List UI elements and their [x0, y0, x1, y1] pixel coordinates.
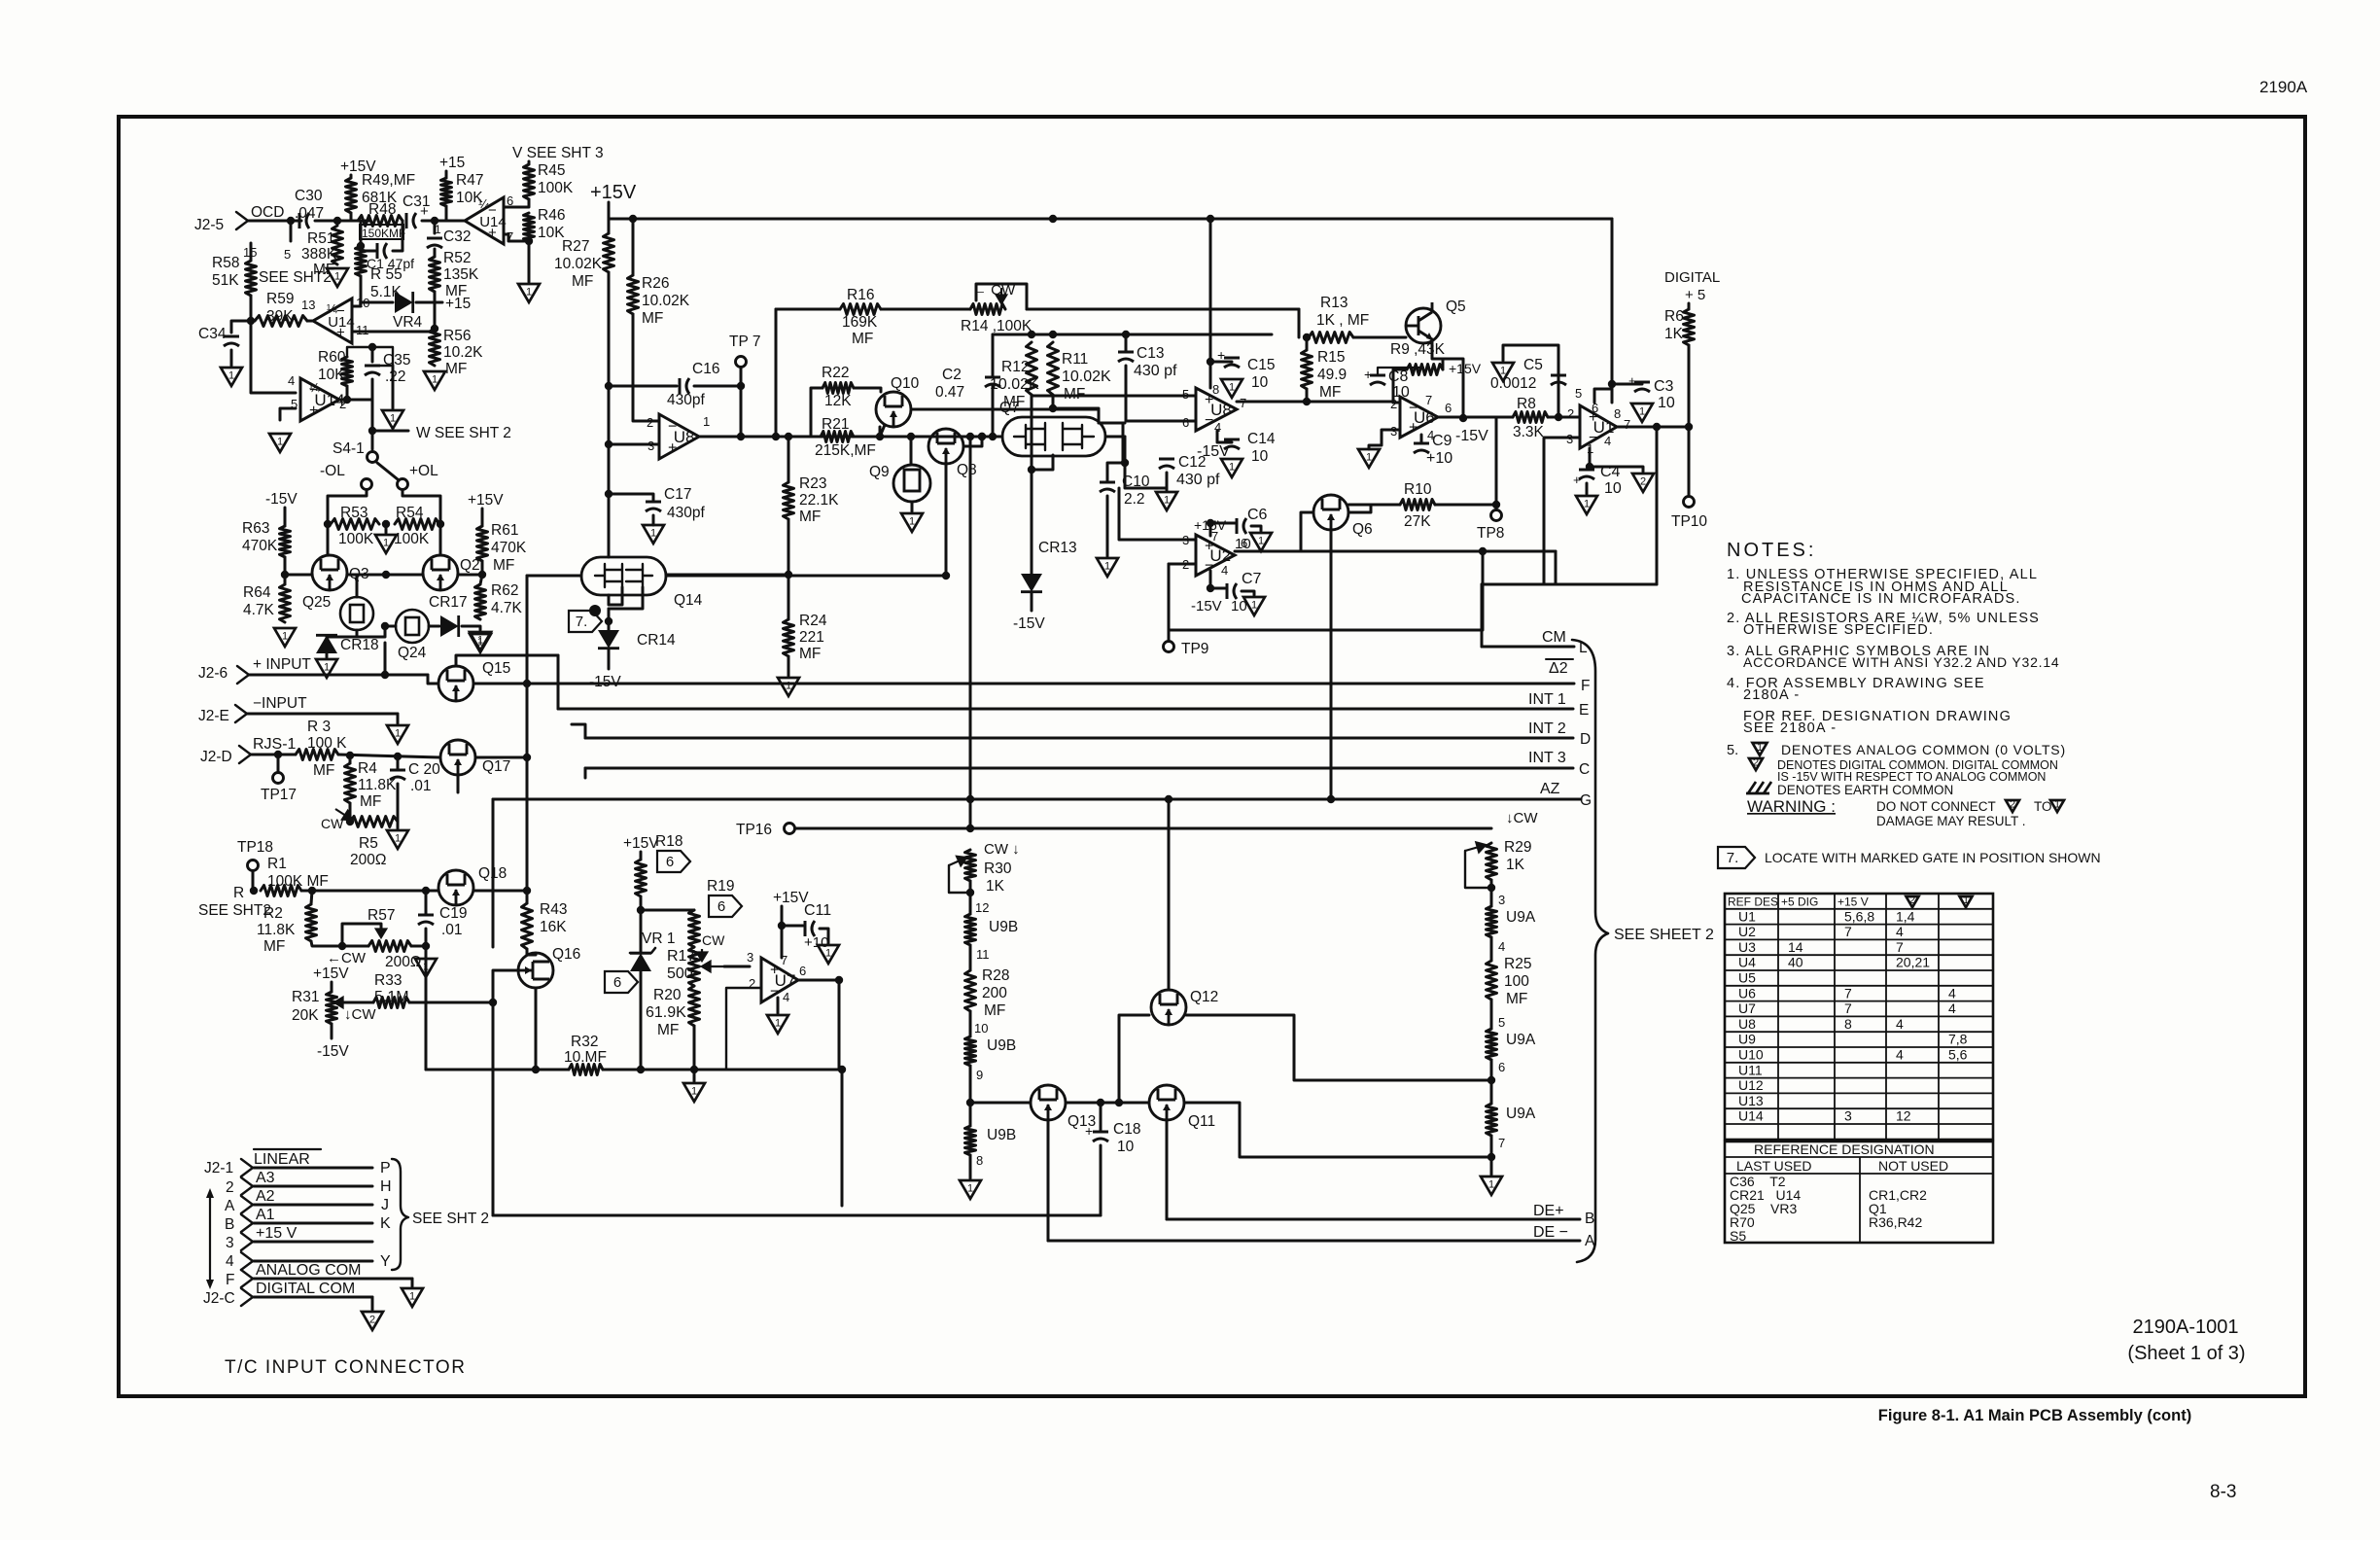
wire Q7 bottoms [1032, 455, 1053, 470]
resistor R10 [1400, 500, 1435, 510]
wire C11 branch [782, 925, 803, 928]
junction Q24 left [381, 622, 389, 630]
wire U7 out down [838, 980, 841, 1070]
wire U8a output bus [699, 436, 1002, 439]
wire INT2 left leg [572, 724, 585, 738]
svg-text:R10: R10 [1404, 481, 1432, 498]
svg-text:.01: .01 [441, 922, 463, 938]
junction R53 left [324, 520, 332, 528]
wire R55 to U14b out [352, 276, 361, 306]
J2 group brace [392, 1159, 408, 1270]
svg-text:Q14: Q14 [674, 592, 703, 609]
wire mid node ground [385, 524, 388, 533]
junction y1100 at R20 [690, 1066, 698, 1073]
svg-text:+15: +15 [439, 155, 465, 171]
svg-text:+15V: +15V [623, 835, 659, 852]
wire R45 to U14a loop [504, 199, 529, 207]
wire U9B a to R28 [969, 945, 972, 970]
wire R24 column [787, 575, 790, 619]
svg-text:INT 1: INT 1 [1528, 691, 1566, 708]
wire CM box left [1481, 584, 1484, 647]
test point TP16 [785, 824, 795, 834]
resistor R4 [345, 763, 356, 803]
svg-text:A2: A2 [256, 1188, 275, 1205]
wire R23 to Q14 gate node [787, 519, 790, 575]
svg-text:U8: U8 [1210, 401, 1232, 419]
svg-text:4: 4 [288, 373, 295, 388]
resistor R48 box 150KMF [360, 225, 403, 239]
wire R9 right leg [1442, 359, 1445, 369]
svg-text:R62: R62 [491, 582, 518, 599]
wire stub pin 5 below [290, 221, 293, 241]
resistor U9B b [965, 1036, 976, 1066]
svg-text:6: 6 [666, 854, 674, 870]
svg-text:7: 7 [1498, 1136, 1505, 1150]
svg-text:6: 6 [1241, 536, 1247, 550]
ground below R46 [518, 284, 540, 302]
svg-text:C18: C18 [1113, 1121, 1140, 1138]
svg-text:8: 8 [976, 1153, 983, 1168]
transistor Q12 [1151, 990, 1186, 1025]
ground below R5 [387, 830, 408, 849]
svg-text:Q8: Q8 [957, 462, 977, 478]
junction node W [368, 427, 376, 435]
long wire y1100 left [426, 1069, 569, 1071]
R29 wiper box [1465, 851, 1491, 888]
svg-text:10K: 10K [318, 367, 345, 383]
test point TP9 [1164, 642, 1174, 652]
wire Q7 right down [1124, 437, 1127, 463]
svg-text:U8: U8 [674, 428, 695, 446]
svg-text:TP17: TP17 [261, 787, 297, 803]
svg-text:A: A [1585, 1233, 1595, 1249]
wire +OL loop [402, 490, 440, 524]
junction x866 [838, 1066, 846, 1073]
ground below U14c [269, 434, 291, 452]
wire Q6 gate down [1330, 530, 1333, 799]
svg-text:ACCORDANCE WITH ANSI Y32.2: ACCORDANCE WITH ANSI Y32.2 AND Y32.14 [1743, 654, 2060, 670]
svg-text:1: 1 [1488, 1179, 1494, 1191]
wire +15 to R47 [445, 171, 448, 178]
ground below C10 [1097, 558, 1118, 577]
wire R33 wiper join [334, 1001, 373, 1004]
svg-text:2.2: 2.2 [1124, 491, 1145, 508]
svg-text:R12: R12 [1001, 359, 1029, 375]
resistor R64 [280, 584, 291, 622]
resistor R24 [784, 619, 794, 656]
svg-text:+15: +15 [445, 296, 471, 312]
potentiometer R17 [689, 947, 700, 986]
capacitor C2 [985, 377, 1000, 387]
wire R5 to C20 bottom [397, 784, 400, 822]
svg-text:1: 1 [1229, 462, 1235, 474]
ground at C7 [1243, 597, 1265, 615]
svg-text:100K: 100K [538, 180, 574, 196]
junction U9A bottom [1487, 1153, 1495, 1161]
svg-text:5: 5 [284, 247, 291, 262]
wire AZ leg to TP16 line [969, 799, 972, 828]
wire R10 right [1435, 504, 1496, 507]
wire C17 cap to gnd [652, 515, 655, 525]
svg-text:430 pf: 430 pf [1134, 363, 1177, 379]
svg-text:U7: U7 [1738, 1001, 1756, 1016]
svg-text:P: P [380, 1160, 391, 1176]
svg-text:R23: R23 [799, 475, 826, 492]
svg-text:←CW: ←CW [327, 950, 367, 966]
junction Q8 right [978, 433, 986, 440]
wire C10 node right [1125, 463, 1167, 488]
op-amp U8 A [659, 414, 699, 459]
wire TP9 column [1168, 564, 1171, 640]
svg-text:1K: 1K [986, 878, 1005, 895]
ground below C12 [1156, 492, 1177, 510]
svg-text:R16: R16 [847, 287, 874, 303]
potentiometer R29 [1487, 843, 1497, 880]
junction R30 box [966, 889, 974, 896]
svg-text:2: 2 [1753, 756, 1759, 768]
svg-text:AZ: AZ [1540, 781, 1560, 797]
svg-text:10.2K: 10.2K [443, 344, 483, 361]
wire U7 pin2 loop [726, 988, 761, 1070]
svg-text:Q7: Q7 [999, 400, 1020, 416]
resistor U9B a [965, 914, 976, 945]
wire W to switch [371, 431, 374, 449]
junction Q14 gate [785, 571, 792, 579]
svg-text:R51: R51 [307, 230, 334, 247]
wire C13 bottom [1126, 366, 1142, 421]
svg-text:430pf: 430pf [667, 505, 705, 521]
svg-text:430pf: 430pf [667, 392, 705, 408]
net TP16 line [795, 827, 1491, 830]
junction out at R23 [785, 433, 792, 440]
wire R33 to vertical [409, 1001, 493, 1004]
svg-text:0.47: 0.47 [935, 384, 964, 401]
wire R18 node down [640, 910, 643, 952]
svg-text:B: B [225, 1216, 234, 1233]
svg-text:-15V: -15V [265, 491, 297, 508]
svg-text:R25: R25 [1504, 956, 1531, 972]
svg-text:1: 1 [432, 374, 437, 386]
junction Q7 left [978, 433, 986, 440]
svg-text:8: 8 [1614, 406, 1621, 421]
svg-text:A: A [225, 1198, 235, 1214]
wire U9Bb to node [969, 1066, 972, 1103]
wire C8 loop [1378, 368, 1423, 375]
junction R57 left [338, 942, 346, 950]
wire C12 to ground [1166, 473, 1169, 490]
wire -INPUT [247, 713, 398, 716]
junction C3 node [1653, 423, 1661, 431]
junction R2 top [308, 887, 316, 895]
connector J2-E chevron [235, 705, 247, 722]
svg-text:R61: R61 [491, 522, 518, 539]
svg-text:27K: 27K [1404, 513, 1431, 530]
svg-text:1: 1 [409, 1291, 415, 1303]
svg-text:R5: R5 [359, 835, 378, 852]
junction bus at R26 [629, 215, 637, 223]
wire VR4 to +15 [416, 301, 442, 304]
junction C13 top [1122, 331, 1130, 338]
svg-text:1: 1 [390, 413, 396, 425]
svg-text:J: J [381, 1197, 389, 1213]
wire below R57 ground [425, 946, 428, 957]
wire U6 out to R8 [1496, 416, 1513, 419]
svg-text:R33: R33 [374, 972, 402, 989]
svg-text:MF: MF [657, 1022, 679, 1038]
svg-text:R 55: R 55 [370, 266, 402, 283]
R17 wiper arrow [702, 962, 724, 971]
wire C3 node drop [1611, 384, 1614, 403]
svg-text:U10: U10 [1738, 1047, 1764, 1063]
svg-text:J2-1: J2-1 [204, 1160, 233, 1176]
svg-text:7.: 7. [576, 614, 588, 630]
wire U2 pin2 loop [1169, 551, 1483, 630]
wire Q10 drain stub [880, 425, 885, 437]
svg-text:1: 1 [909, 516, 915, 528]
svg-text:RJS-1: RJS-1 [253, 736, 297, 753]
svg-text:1: 1 [1164, 495, 1170, 507]
svg-text:R26: R26 [642, 275, 669, 292]
svg-text:+: + [1085, 1123, 1093, 1139]
wire Q15 top corner [456, 655, 558, 666]
svg-text:-15V: -15V [317, 1043, 349, 1060]
connector range arrow [209, 1194, 211, 1283]
wire R22 left leg [811, 388, 822, 437]
wire +INPUT [249, 674, 428, 677]
transistor Q13 [1031, 1085, 1066, 1120]
junction Q14/Q8 [942, 572, 950, 579]
svg-text:3: 3 [1844, 1108, 1852, 1124]
dual fet Q14 oval [581, 557, 666, 595]
zener VR1 bent bar [630, 948, 655, 953]
svg-text:+15V: +15V [1449, 361, 1482, 376]
svg-text:22.1K: 22.1K [799, 492, 839, 509]
capacitor C8 [1370, 375, 1385, 385]
op-amp U1 [1580, 405, 1617, 448]
svg-text:R8: R8 [1517, 396, 1536, 412]
wire U2 pin7 up [1209, 523, 1212, 536]
junction AZ at TP16 leg [966, 795, 974, 803]
junction R33/Q16 [489, 999, 497, 1006]
wire V to R45 [528, 161, 531, 164]
svg-text:R43: R43 [540, 901, 567, 918]
wire rail A to C17 [608, 444, 611, 494]
svg-text:C11: C11 [804, 902, 831, 919]
wire Q18 right [473, 890, 527, 893]
resistor R55 [356, 246, 367, 276]
connector arrow bottom [206, 1280, 214, 1289]
current-reg diode Q25 [340, 597, 373, 630]
svg-text:Q17: Q17 [482, 758, 510, 775]
ground below U9B [960, 1180, 981, 1199]
wire Q12 gate from AZ [1168, 799, 1171, 990]
wire U9Bc to gnd [969, 1155, 972, 1178]
op-amp U2 [1196, 535, 1235, 576]
svg-text:430 pf: 430 pf [1176, 472, 1220, 488]
svg-text:R15: R15 [1317, 349, 1345, 366]
svg-text:+ INPUT: + INPUT [253, 656, 311, 673]
wire INT3 left leg [584, 768, 587, 778]
svg-text:C32: C32 [443, 228, 471, 245]
resistor R62 [475, 584, 486, 619]
op-amp U6 [1400, 397, 1438, 438]
wire +15V to R49 [350, 175, 353, 178]
svg-text:U9A: U9A [1506, 1032, 1536, 1048]
svg-text:MF: MF [642, 310, 663, 327]
wire C32 node drop [434, 221, 437, 233]
long wire y1100 right [603, 1069, 839, 1071]
table REF DES grid [1725, 894, 1993, 1140]
wire R15 to U8 out [1306, 389, 1309, 402]
svg-text:3.3K: 3.3K [1513, 424, 1545, 440]
wire R6 to TP10 [1688, 345, 1691, 496]
wire C5 loop [1503, 345, 1558, 375]
junction C4 node [1586, 463, 1593, 471]
svg-text:4: 4 [1498, 939, 1505, 954]
svg-text:4: 4 [1948, 985, 1956, 1001]
diode CR17 [440, 615, 459, 637]
wire C19 bottom stub [425, 929, 428, 946]
Q7 internals [1014, 423, 1094, 450]
wire x866 drop [841, 1070, 844, 1206]
svg-text:-15V: -15V [1013, 615, 1045, 632]
svg-text:DIGITAL: DIGITAL [1664, 269, 1720, 286]
svg-text:C3: C3 [1654, 378, 1674, 395]
svg-text:CM: CM [1542, 629, 1566, 646]
svg-text:S5: S5 [1730, 1228, 1746, 1244]
wire R10 left [1348, 504, 1400, 507]
svg-text:U1: U1 [1738, 908, 1756, 924]
svg-text:12K: 12K [824, 393, 852, 409]
svg-text:CR13: CR13 [1038, 540, 1077, 556]
svg-text:1: 1 [1500, 366, 1506, 377]
net LINEAR overline [254, 1148, 321, 1150]
junction pin3 rail [605, 440, 612, 448]
junction out at C2 [989, 433, 997, 440]
wire C32 to R52 [434, 249, 437, 257]
ground below C4 [1576, 496, 1597, 514]
R29 wiper arrow [1465, 842, 1486, 852]
resistor R63 [280, 526, 291, 557]
resistor R43 [522, 903, 533, 949]
svg-text:11: 11 [976, 947, 990, 962]
wire U2 out corner [1555, 551, 1557, 584]
svg-text:U4: U4 [1738, 955, 1756, 970]
wire TP8 column [1495, 417, 1498, 509]
wire digital com drop [371, 1297, 374, 1310]
svg-text:G: G [1580, 792, 1592, 809]
svg-text:C2: C2 [942, 367, 962, 383]
wire Q8 segment right [963, 437, 982, 446]
wire R59 to U14b [307, 320, 313, 323]
junction R62 top [478, 571, 486, 579]
svg-text:11.8K: 11.8K [257, 922, 296, 938]
junction R10 node [1492, 501, 1500, 509]
svg-text:61.9K: 61.9K [646, 1004, 686, 1021]
junction TP17 node [274, 751, 282, 758]
svg-text:CR14: CR14 [637, 632, 676, 649]
svg-text:SEE SHEET 2: SEE SHEET 2 [1614, 927, 1714, 943]
svg-text:U9B: U9B [987, 1127, 1016, 1143]
net ANALOG COM line [254, 1278, 412, 1281]
junction +INPUT at Q24 [381, 671, 389, 679]
svg-text:VR 1: VR 1 [642, 931, 675, 947]
net DE+ line [1167, 1218, 1580, 1221]
wire rail B upper [632, 219, 635, 275]
wire Q10 gate right [911, 408, 1099, 411]
svg-text:E: E [1579, 702, 1589, 719]
svg-text:13: 13 [301, 298, 315, 312]
resistor R11 [1048, 342, 1059, 395]
wire R2 stub [311, 891, 312, 904]
svg-text:1: 1 [825, 948, 831, 960]
transistor Q11 [1149, 1085, 1184, 1120]
svg-text:4: 4 [1604, 434, 1611, 448]
capacitor C19 [418, 915, 434, 925]
wire C9 stub [1420, 435, 1423, 443]
note 5b gnd2 symbol [1749, 758, 1763, 770]
transistor Q18 [438, 870, 473, 905]
wire R15 stub [1306, 337, 1309, 350]
wire R55 top to box [360, 239, 363, 246]
wire R9 left leg [1393, 369, 1407, 403]
svg-text:(Sheet 1 of 3): (Sheet 1 of 3) [2127, 1343, 2245, 1364]
svg-text:MF: MF [360, 793, 381, 810]
svg-text:MF: MF [572, 273, 593, 290]
junction out at R16 leg [772, 433, 780, 440]
svg-text:1: 1 [477, 635, 483, 647]
wire Q5 collector right [1443, 359, 1463, 418]
capacitor C20 [390, 770, 405, 780]
svg-text:−INPUT: −INPUT [253, 695, 307, 712]
svg-text:R24: R24 [799, 613, 827, 629]
ground below R57 [415, 959, 437, 977]
connector pin3 chevron [241, 1233, 253, 1250]
svg-text:TP18: TP18 [237, 839, 273, 856]
svg-text:1: 1 [1229, 382, 1235, 394]
wire Q7 right lead [1105, 436, 1125, 439]
junction U9B row [966, 1099, 974, 1106]
resistor R1 [261, 886, 301, 896]
ground below R64 [274, 628, 296, 647]
ground at C11 [818, 945, 839, 964]
ground below C15 [1221, 379, 1242, 398]
connector J2-6 chevron [237, 666, 249, 684]
svg-text:1: 1 [383, 538, 389, 549]
svg-text:7: 7 [1844, 985, 1852, 1001]
wire R54 right to Q2 gate [439, 524, 442, 555]
svg-text:6: 6 [717, 898, 725, 915]
wire CR18 to ground [326, 653, 329, 657]
junction at C30 left [287, 217, 295, 225]
wire R47 down to input [445, 206, 448, 221]
svg-text:4: 4 [1896, 1016, 1904, 1032]
wire R6 top [1688, 303, 1691, 309]
junction out at TP7 [737, 433, 745, 440]
svg-text:R53: R53 [340, 505, 367, 521]
wire C14 from pin4 [1217, 431, 1232, 442]
resistor R8 [1513, 412, 1548, 423]
svg-text:10: 10 [974, 1021, 988, 1036]
svg-text:+: + [1217, 347, 1225, 363]
wire Q14 inner left [609, 587, 622, 605]
svg-text:51K: 51K [212, 272, 239, 289]
wire pin5 from R12 [1032, 395, 1142, 398]
wire C18 stub [1100, 1103, 1102, 1130]
capacitor C30 [299, 213, 309, 228]
junction U14c out [343, 396, 351, 404]
svg-text:R30: R30 [984, 860, 1012, 877]
